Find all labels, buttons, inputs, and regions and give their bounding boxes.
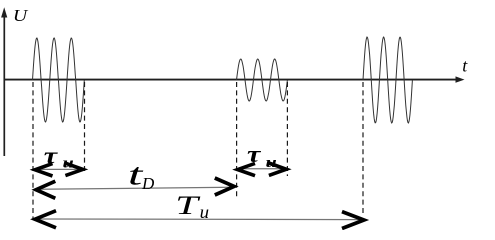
dashed line D1 [32,82,34,219]
t axis (horizontal) [4,76,465,82]
dashed line D2 [84,82,86,171]
svg-text:U: U [13,7,29,25]
arrow Ti left head [35,211,56,228]
arrow tau2 shaft [241,168,284,170]
svg-text:τ: τ [44,142,58,169]
svg-text:D: D [141,174,155,193]
arrow Ti right head [342,212,364,229]
arrow tau1 shaft [38,168,80,170]
wave burst 1 [33,38,85,122]
svg-text:T: T [175,192,201,220]
dashed line D3 [236,82,238,199]
svg-text:и: и [63,154,74,171]
arrow tau2 right head [269,163,286,175]
arrow tau1 left head [35,164,53,176]
svg-text:τ: τ [247,141,261,168]
dashed line D5 [362,82,364,214]
arrow tau1 right head [65,163,83,175]
arrow tD right head [215,178,234,195]
svg-text:и: и [266,153,277,170]
wave burst 3 [363,37,412,123]
dashed line D4 [286,82,288,176]
svg-text:t: t [462,56,468,76]
wave burst 2 [237,59,288,101]
arrow tD left head [36,181,55,198]
arrow Ti shaft [38,218,361,221]
U axis (vertical) [1,7,7,156]
arrow tD shaft [39,187,231,189]
svg-text:и: и [200,202,209,222]
arrow tau2 left head [238,163,255,175]
